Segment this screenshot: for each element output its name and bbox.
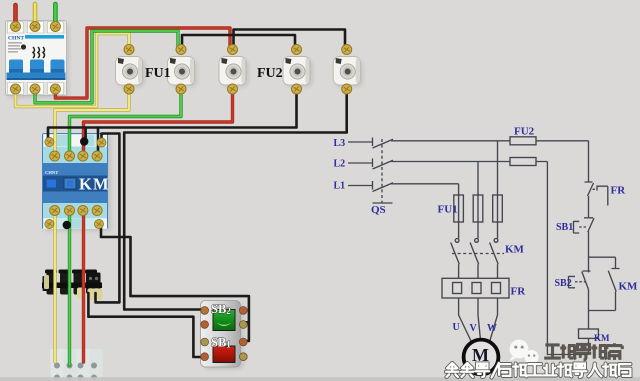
svg-text:V: V: [470, 323, 478, 334]
svg-text:K: K: [79, 175, 92, 194]
svg-text:U: U: [453, 322, 460, 333]
svg-text:W: W: [487, 323, 497, 334]
svg-text:QS: QS: [371, 204, 386, 216]
svg-text:KM: KM: [505, 244, 525, 256]
svg-text:FU1: FU1: [438, 204, 458, 216]
svg-text:FU1: FU1: [145, 66, 171, 81]
svg-text:SB2: SB2: [555, 278, 572, 289]
svg-text:KM: KM: [619, 280, 639, 292]
svg-text:FU2: FU2: [257, 66, 283, 81]
svg-text:FR: FR: [611, 185, 627, 197]
svg-text:CHNT: CHNT: [45, 170, 58, 175]
svg-text:FU2: FU2: [514, 126, 535, 138]
svg-text:L2: L2: [334, 159, 346, 170]
svg-text:L1: L1: [334, 181, 346, 192]
svg-text:M: M: [93, 175, 109, 194]
svg-text:FR: FR: [511, 286, 527, 298]
svg-text:CHNT: CHNT: [8, 36, 24, 42]
svg-text:L3: L3: [334, 138, 346, 149]
svg-text:KM: KM: [594, 333, 610, 343]
svg-text:SB1: SB1: [556, 222, 573, 233]
